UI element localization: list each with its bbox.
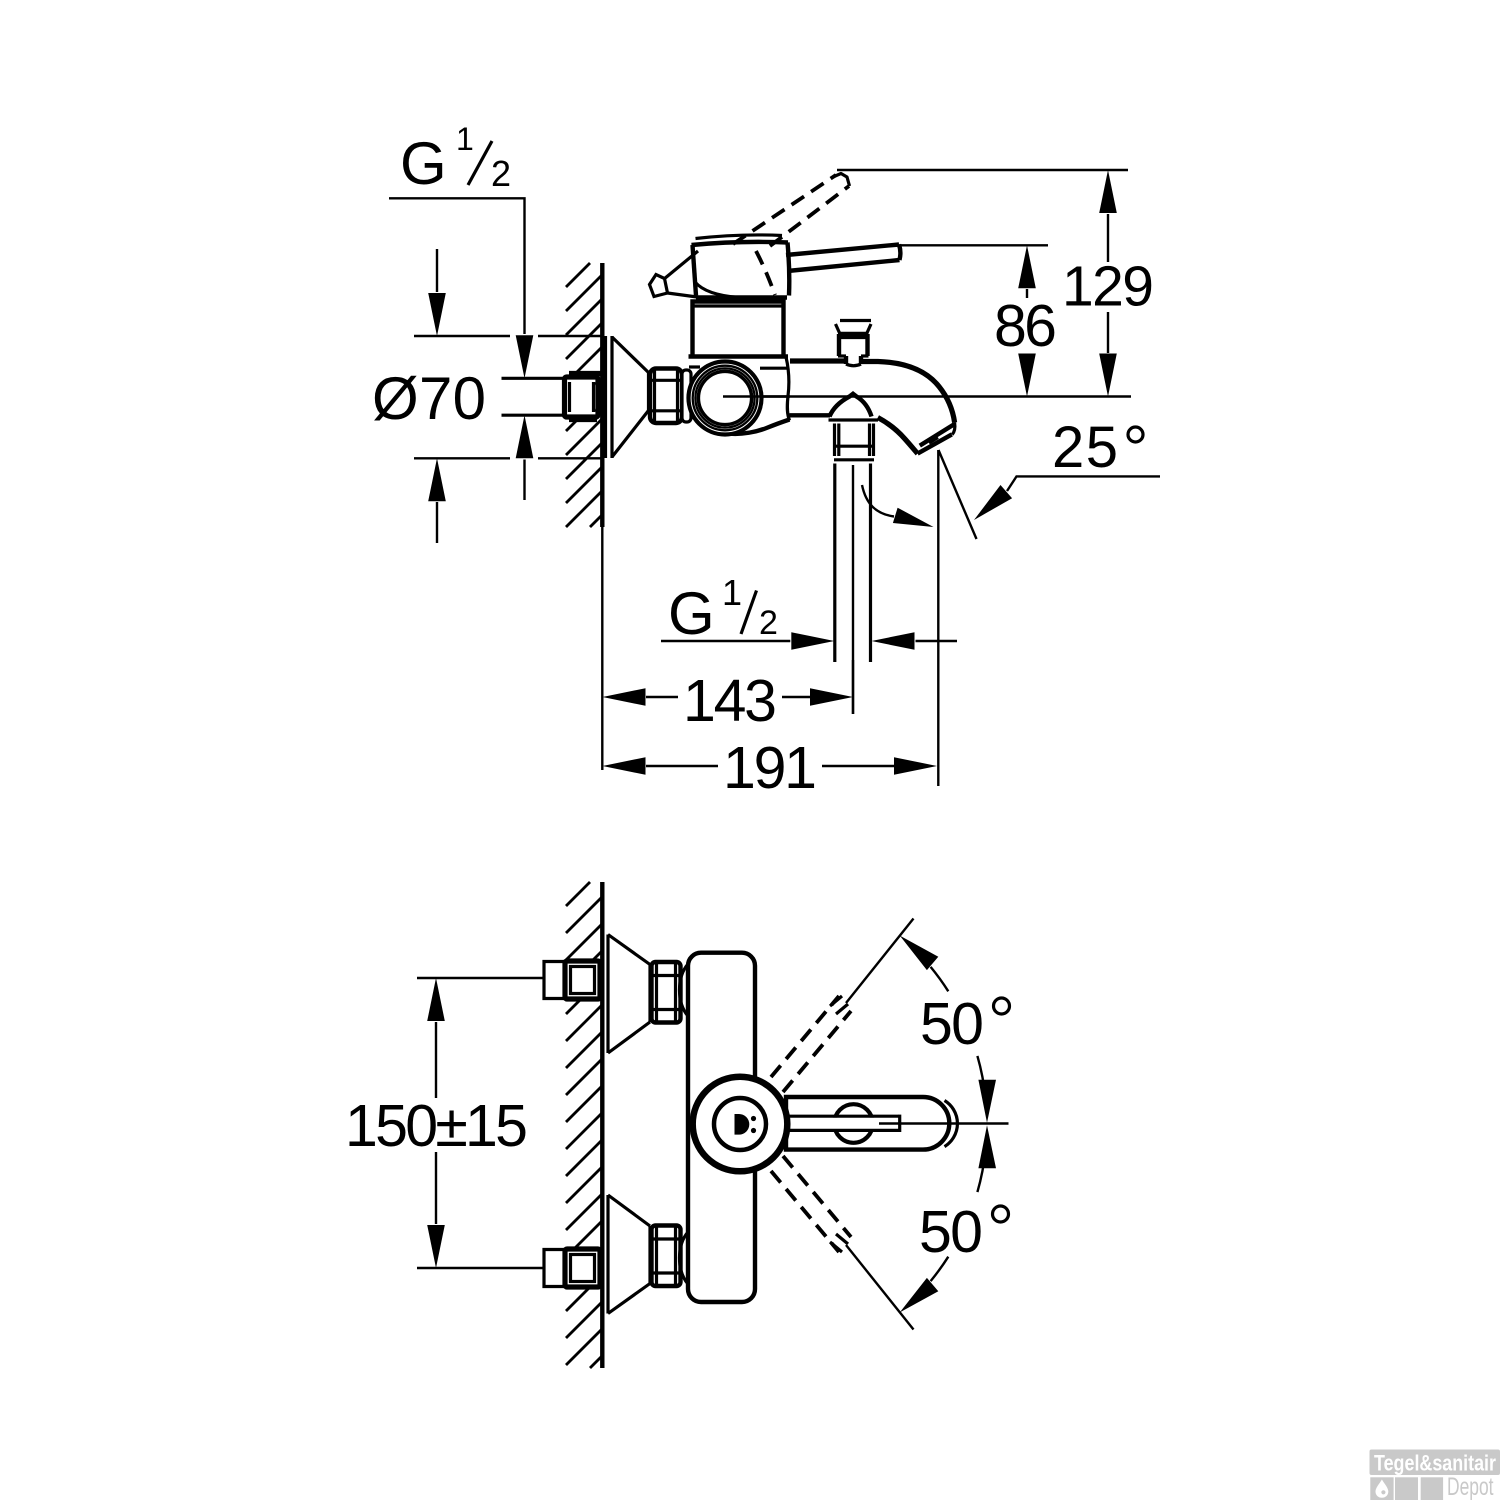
svg-text:50: 50 <box>920 991 984 1057</box>
svg-text:191: 191 <box>723 735 817 801</box>
svg-text:2: 2 <box>491 153 511 194</box>
svg-text:Ø70: Ø70 <box>372 365 486 432</box>
svg-text:25: 25 <box>1052 415 1118 480</box>
svg-text:150±15: 150±15 <box>345 1093 528 1159</box>
svg-text:143: 143 <box>683 668 777 734</box>
svg-text:G: G <box>668 580 715 647</box>
svg-text:1: 1 <box>456 121 474 157</box>
svg-text:Depot: Depot <box>1447 1473 1494 1500</box>
svg-text:50: 50 <box>919 1199 983 1265</box>
svg-text:Tegel&sanitair: Tegel&sanitair <box>1374 1451 1496 1476</box>
svg-text:1: 1 <box>722 572 742 613</box>
svg-text:129: 129 <box>1062 255 1154 319</box>
svg-text:G: G <box>400 130 447 197</box>
svg-text:86: 86 <box>994 293 1057 359</box>
svg-text:2: 2 <box>759 604 778 642</box>
